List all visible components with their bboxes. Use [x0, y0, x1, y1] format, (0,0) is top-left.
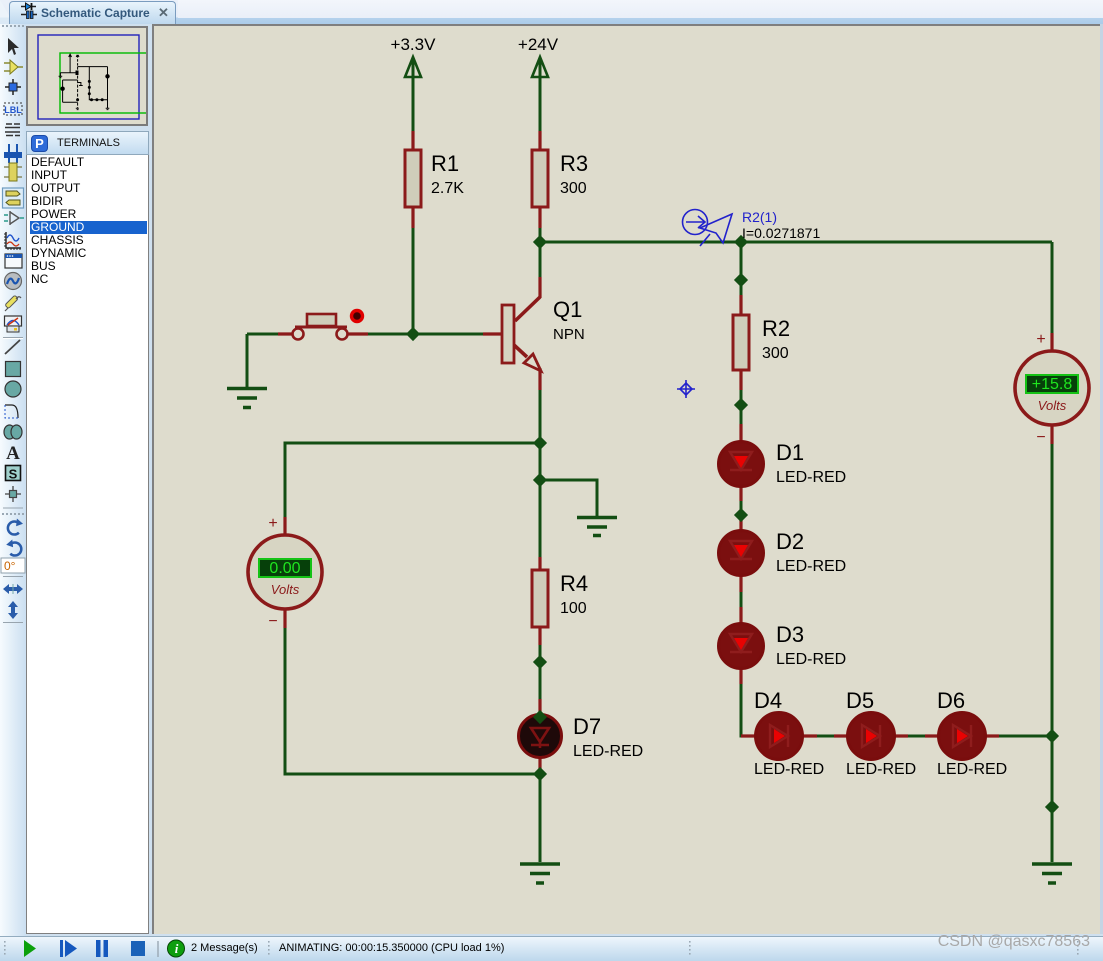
svg-text:R2(1): R2(1) [742, 209, 777, 225]
svg-text:D7: D7 [573, 714, 601, 739]
svg-text:i: i [175, 941, 179, 956]
svg-text:A: A [6, 443, 20, 464]
svg-text:+24V: +24V [518, 35, 559, 54]
svg-text:Q1: Q1 [553, 297, 582, 322]
svg-text:Volts: Volts [1038, 398, 1067, 413]
svg-text:Volts: Volts [271, 582, 300, 597]
svg-text:+: + [268, 515, 277, 532]
svg-text:300: 300 [560, 180, 587, 197]
svg-text:D3: D3 [776, 622, 804, 647]
svg-text:D4: D4 [754, 688, 782, 713]
svg-text:LED-RED: LED-RED [754, 761, 824, 778]
svg-text:LED-RED: LED-RED [776, 558, 846, 575]
svg-text:0°: 0° [4, 559, 16, 573]
svg-text:+: + [1036, 331, 1045, 348]
svg-text:2.7K: 2.7K [431, 180, 464, 197]
svg-text:D6: D6 [937, 688, 965, 713]
svg-text:LBL: LBL [4, 105, 22, 115]
svg-text:LED-RED: LED-RED [573, 743, 643, 760]
svg-text:LED-RED: LED-RED [937, 761, 1007, 778]
svg-text:D1: D1 [776, 440, 804, 465]
svg-text:S: S [9, 467, 18, 482]
svg-text:+3.3V: +3.3V [391, 35, 437, 54]
svg-text:−: − [1036, 429, 1045, 446]
svg-text:NPN: NPN [553, 326, 585, 343]
svg-text:100: 100 [560, 600, 587, 617]
svg-text:R4: R4 [560, 571, 588, 596]
svg-text:I=0.0271871: I=0.0271871 [742, 225, 820, 241]
svg-text:R3: R3 [560, 151, 588, 176]
svg-text:+15.8: +15.8 [1032, 376, 1073, 393]
svg-text:−: − [268, 613, 277, 630]
svg-text:0.00: 0.00 [269, 560, 300, 577]
svg-text:R1: R1 [431, 151, 459, 176]
svg-text:300: 300 [762, 345, 789, 362]
svg-text:D2: D2 [776, 529, 804, 554]
svg-text:R2: R2 [762, 316, 790, 341]
svg-text:LED-RED: LED-RED [776, 651, 846, 668]
svg-text:LED-RED: LED-RED [846, 761, 916, 778]
svg-text:LED-RED: LED-RED [776, 469, 846, 486]
svg-text:D5: D5 [846, 688, 874, 713]
